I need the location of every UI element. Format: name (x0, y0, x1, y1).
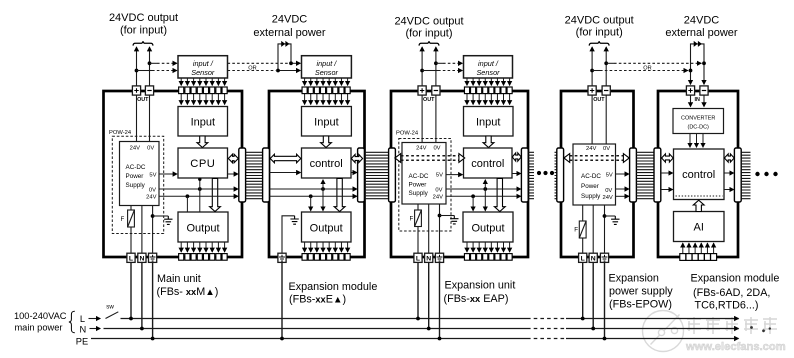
svg-text:24V: 24V (586, 146, 596, 152)
svg-text:control: control (682, 169, 715, 181)
rail PE (91, 338, 527, 340)
module1 output wire 3 (193, 242, 195, 252)
module3 input wire 4 upper (484, 78, 486, 85)
label OR (246, 64, 259, 70)
module 4 expansion power supply case (561, 91, 634, 257)
svg-text:Supply: Supply (409, 190, 429, 197)
hollow arrow control to Output module 3 (494, 179, 505, 212)
svg-text:(for input): (for input) (405, 28, 452, 40)
module 2 terminal PE (278, 253, 286, 262)
wire N module 3 (428, 204, 430, 253)
module 3 PE drop wire (439, 262, 441, 338)
module1 output wire 5 (205, 242, 207, 252)
svg-text:(FBs-6AD, 2DA,: (FBs-6AD, 2DA, (693, 287, 770, 299)
svg-text:Output: Output (310, 223, 343, 235)
box control module 2 (302, 148, 352, 178)
module 3 L drop wire (417, 262, 419, 318)
wire 0V drop to Output module 3 (484, 189, 486, 211)
rail N (104, 328, 528, 330)
svg-text:(FBs- xxM▲): (FBs- xxM▲) (157, 286, 219, 298)
svg-text:Expansion: Expansion (609, 273, 659, 285)
svg-text:AC-DC: AC-DC (409, 173, 429, 180)
expansion connector module 3 left (389, 148, 396, 202)
wire 5V control to connector module 3 (512, 173, 521, 175)
wire PE module 1 inside (152, 234, 154, 253)
module2 input wire 5 lower (328, 94, 330, 105)
module2 input wire 3 upper (316, 78, 318, 85)
box AI module 5 (674, 212, 725, 242)
dashed arrow into input/Sensor 2 lower (278, 70, 300, 72)
svg-text:OUT: OUT (137, 97, 149, 103)
dashed wire OR lower to module 2 (228, 70, 276, 72)
svg-text:Output: Output (186, 223, 219, 235)
module 3 terminal L (414, 253, 422, 262)
hollow arrow Input to CPU (197, 136, 208, 148)
wire + into converter (690, 95, 692, 106)
svg-text:Input: Input (191, 117, 215, 129)
dashed wire OR upper to module 2 (228, 62, 289, 64)
expansion connector module 5 right (734, 148, 741, 202)
wire 5V supply to control module 3 (446, 174, 463, 176)
svg-text:Expansion module: Expansion module (289, 281, 378, 293)
brace over 24VDC output arrows (419, 41, 439, 45)
module2 output wire 6 (334, 242, 336, 252)
dashed wire 0V to input/Sensor 1 lower (137, 70, 153, 72)
module1 output terminal blocks (179, 254, 228, 261)
svg-text:0V: 0V (433, 146, 440, 152)
svg-text:www.elecfans.com: www.elecfans.com (685, 341, 786, 353)
box CPU (178, 148, 228, 178)
wire 24V bus module 3 (446, 195, 521, 197)
analog input wire 4 (700, 243, 702, 253)
wire bus into control module 5 lower (661, 189, 673, 191)
watermark: elecfans logo circle (643, 311, 684, 352)
module 5 terminal - IN (700, 86, 708, 95)
svg-text:Supply: Supply (126, 182, 146, 189)
module 3 terminal - OUT (432, 86, 440, 95)
wire 5V supply to CPU (159, 173, 177, 175)
module 1 N drop wire (141, 262, 143, 328)
dashed wire OR2 upper to module 5 (606, 62, 614, 64)
wire 0V- from OUT terminal into supply (149, 95, 151, 141)
module3 input wire 3 lower (478, 94, 480, 105)
svg-text:Main unit: Main unit (157, 273, 201, 285)
junction PE earth module 4 (603, 214, 607, 218)
analog input wire 6 (713, 243, 715, 253)
fuse F module 3 (417, 204, 419, 210)
svg-text:Sensor: Sensor (315, 68, 339, 77)
svg-text:control: control (310, 158, 343, 170)
expansion connector module 2 right (358, 148, 365, 202)
wire 24V+ from OUT terminal into supply (136, 95, 138, 141)
wire N module 1 (141, 206, 143, 253)
module 4 terminal N (589, 253, 597, 262)
module 2 expansion module case (269, 91, 365, 257)
module1 input wire 4 lower (199, 94, 201, 105)
box input/Sensor 3 (464, 56, 513, 78)
module2 input wire 7 upper (340, 78, 342, 85)
box CONVERTER DC-DC (673, 109, 724, 134)
dashed POW-24 enclosure module 3 (399, 139, 451, 232)
svg-text:24VDC: 24VDC (272, 14, 308, 26)
hollow arrow connector to control module 5 left (662, 154, 674, 162)
continuation dots right of module 5 (755, 172, 759, 176)
module 4 terminal PE (600, 253, 608, 262)
junction external power lower (276, 69, 280, 73)
svg-text:Sensor: Sensor (191, 68, 215, 77)
wire 24VDC- up arrow (605, 47, 607, 86)
junction 24V module 1 (186, 194, 190, 198)
svg-text:(for input): (for input) (576, 27, 623, 39)
module2 input wire 5 upper (328, 78, 330, 85)
svg-text:OUT: OUT (423, 97, 435, 103)
brace over 24VDC output arrows (133, 41, 153, 45)
svg-text:OUT: OUT (593, 97, 605, 103)
dashed expansion bus module 3 (401, 155, 459, 157)
hollow arrow AI to control (693, 200, 704, 211)
rail L (121, 318, 528, 320)
module3 input wire 1 lower (466, 94, 468, 105)
svg-text:control: control (471, 158, 504, 170)
dashed wire to input/Sensor 3 lower (422, 70, 438, 72)
expansion connector module 4 left (557, 148, 564, 202)
wire 24V bus module 1 (159, 195, 238, 197)
svg-text:24V: 24V (130, 146, 140, 152)
module3 input wire 1 upper (466, 78, 468, 85)
junction on module4 24VDC- line (604, 61, 608, 65)
module3 output terminal blocks (464, 254, 512, 261)
svg-text:24V: 24V (146, 195, 156, 201)
box Output module 3 (463, 212, 513, 242)
module2 input wire 4 lower (322, 94, 324, 105)
svg-text:TC6,RTD6...): TC6,RTD6...) (695, 300, 759, 312)
module1 output wire 4 (199, 242, 201, 252)
wire 24VDC+ up arrow (421, 47, 423, 86)
junction on 24VDC- line (148, 61, 152, 65)
svg-text:CPU: CPU (190, 158, 215, 170)
analog input wire 2 (688, 243, 690, 253)
svg-text:Expansion module: Expansion module (691, 273, 780, 285)
module 1 terminal N (138, 253, 146, 262)
wire external power bracket 2 (691, 44, 705, 71)
svg-text:OR: OR (248, 65, 256, 71)
wire 0V branch up to control module 3 (484, 180, 486, 189)
wire - into converter (703, 95, 705, 106)
svg-text:Sensor: Sensor (476, 68, 500, 77)
module1 output wire 6 (211, 242, 213, 252)
expansion connector module 5 left (654, 148, 661, 202)
wire protective earth module 2 (282, 216, 295, 253)
module3 input wire 6 lower (496, 94, 498, 105)
svg-text:0V: 0V (147, 146, 154, 152)
box Input module 3 (464, 107, 514, 137)
module3 input wire 7 lower (503, 94, 505, 105)
svg-text:N: N (139, 255, 144, 262)
module 5 terminal + IN (686, 86, 694, 95)
svg-text:L: L (416, 255, 420, 262)
wire PE module 4 inside (604, 205, 606, 253)
svg-text:input /: input / (193, 59, 214, 68)
junction 0V module 3 (483, 187, 487, 191)
svg-text:24V: 24V (416, 146, 426, 152)
module 1 terminal PE (149, 253, 157, 262)
module1 output wire 7 (217, 242, 219, 252)
wire 0V module 4 to connector (616, 188, 629, 190)
svg-text:F: F (121, 216, 125, 223)
module2 output wire 8 (347, 242, 349, 252)
svg-text:AC-DC: AC-DC (126, 164, 146, 171)
dashed wire 24V to input/Sensor 1 upper (150, 62, 158, 64)
wire 0V- OUT terminal into supply module 4 (605, 95, 607, 144)
svg-text:F: F (574, 227, 578, 234)
arrow into + IN terminal (690, 71, 692, 85)
module1 output wire 1 (180, 242, 182, 252)
module3 output wire 4 (484, 242, 486, 252)
wire N feed arrow (90, 328, 101, 330)
module2 output wire 4 (322, 242, 324, 252)
hollow arrow Input to control module 2 (321, 136, 332, 148)
junction PE earth module 1 (151, 214, 155, 218)
wire control to connector module 5 lower (724, 189, 734, 191)
svg-text:Power: Power (581, 183, 599, 190)
wire 0V bus module 3 (446, 188, 521, 190)
wire PE module 3 inside (439, 204, 441, 253)
module2 input terminal blocks (302, 87, 350, 94)
module2 output wire 5 (328, 242, 330, 252)
svg-text:PE: PE (76, 336, 88, 346)
module3 input wire 5 lower (490, 94, 492, 105)
wire 24V drop to Output module 2 (310, 196, 312, 210)
svg-text:Power: Power (126, 173, 144, 180)
module1 output wire 2 (186, 242, 188, 252)
hollow arrow control to connector module 2 (351, 154, 362, 162)
svg-text:AI: AI (693, 222, 703, 234)
svg-text:5V: 5V (436, 173, 443, 179)
dashed arrow into input/Sensor 2 upper (291, 62, 300, 64)
module1 input wire 7 lower (217, 94, 219, 105)
svg-text:0V: 0V (605, 188, 612, 194)
hollow arrow CPU to expansion connector (228, 154, 238, 163)
svg-text:24V: 24V (602, 195, 612, 201)
module1 input wire 8 lower (224, 94, 226, 105)
module 3 terminal + OUT (418, 86, 426, 95)
hollow arrow Input to control module 3 (483, 136, 494, 148)
module2 input wire 1 upper (304, 78, 306, 85)
module3 output wire 3 (478, 242, 480, 252)
module2 input wire 4 upper (322, 78, 324, 85)
module 4 L drop wire (582, 262, 584, 318)
ribbon cable module5 right stub (741, 152, 750, 198)
svg-text:24VDC: 24VDC (684, 15, 720, 27)
fuse F module 1 (130, 206, 132, 211)
svg-text:external power: external power (253, 27, 325, 39)
wire 24VDC- up arrow (149, 47, 151, 86)
ribbon cable module3 right stub (528, 152, 534, 198)
wire 5V control to connector module 2 (351, 172, 357, 174)
module1 input terminal blocks (179, 87, 228, 94)
wire 24V+ OUT terminal into supply module 3 (421, 95, 423, 142)
module1 input wire 5 upper (205, 78, 207, 85)
svg-text:24VDC output: 24VDC output (565, 15, 634, 27)
module 3 N drop wire (428, 262, 430, 328)
continuation dots between module 3 and 4 (537, 171, 541, 175)
box control module 5 (674, 149, 725, 200)
svg-text:0V: 0V (435, 187, 442, 193)
module 4 terminal L (579, 253, 587, 262)
module3 output wire 6 (496, 242, 498, 252)
wire 24VDC- up arrow (435, 47, 437, 86)
module 3 terminal PE (435, 253, 443, 262)
wire 24VDC+ up arrow (591, 47, 593, 86)
brace main power (69, 311, 75, 332)
module 4 PE drop wire (604, 262, 606, 338)
module1 input wire 7 upper (217, 78, 219, 85)
box Output module 2 (302, 212, 352, 242)
hollow arrow CPU to Output (210, 179, 221, 212)
module3 input wire 2 lower (472, 94, 474, 105)
module1 input wire 3 upper (193, 78, 195, 85)
svg-text:input /: input / (478, 59, 499, 68)
module3 input wire 4 lower (484, 94, 486, 105)
svg-text:L: L (129, 255, 133, 262)
module1 input wire 3 lower (193, 94, 195, 105)
junction 24V module 3 (471, 194, 475, 198)
module2 input wire 8 lower (347, 94, 349, 105)
wire 5V module 4 to connector (616, 173, 629, 175)
svg-text:L: L (80, 314, 85, 324)
module3 input wire 7 upper (503, 78, 505, 85)
box input/Sensor 2 (302, 56, 352, 78)
module2 output wire 7 (340, 242, 342, 252)
module 1 main unit case (104, 91, 243, 257)
ribbon cable module1-module2 (246, 152, 263, 198)
hollow arrow control to connector module 3 (512, 153, 521, 161)
ribbon cable module2-module3 (365, 152, 389, 198)
svg-text:(FBs-xxE▲): (FBs-xxE▲) (289, 294, 346, 306)
watermark: dark specks (750, 326, 753, 329)
box Input module 1 (178, 107, 228, 137)
wire 24V drop to Output module 1 (186, 196, 188, 212)
svg-text:(for input): (for input) (120, 25, 167, 37)
junction PE earth module 3 (438, 214, 442, 218)
expansion connector module 3 right (521, 148, 528, 202)
junction external power 2 lower (689, 69, 693, 73)
expansion connector module 1 right (239, 148, 246, 202)
module2 input wire 6 lower (334, 94, 336, 105)
svg-text:AC-DC: AC-DC (581, 173, 601, 180)
module3 output wire 1 (466, 242, 468, 252)
dashed POW-24 enclosure module 1 (112, 136, 163, 233)
box Input module 2 (302, 107, 352, 137)
module 4 N drop wire (592, 262, 594, 328)
expansion connector module 2 left (263, 148, 270, 202)
junction on module3 24VDC+ line (420, 69, 424, 73)
svg-text:OR: OR (643, 65, 651, 71)
svg-text:5V: 5V (149, 173, 156, 179)
svg-text:input /: input / (316, 59, 337, 68)
svg-text:(DC-DC): (DC-DC) (688, 125, 710, 131)
svg-text:N: N (591, 255, 596, 262)
svg-text:(FBs-EPOW): (FBs-EPOW) (609, 299, 672, 311)
earth symbol module 1 (153, 215, 169, 217)
external power 2 polarity marks (694, 41, 702, 47)
ribbon cable module4 left stub (555, 152, 557, 198)
svg-text:external power: external power (665, 27, 737, 39)
arrow into - IN terminal (703, 63, 705, 84)
module3 input wire 6 upper (496, 78, 498, 85)
junction external power upper (289, 61, 293, 65)
wire 0V- OUT terminal into supply module 3 (435, 95, 437, 142)
module3 output wire 2 (472, 242, 474, 252)
module2 input wire 2 upper (310, 78, 312, 85)
module1 input wire 2 lower (186, 94, 188, 105)
svg-text:Supply: Supply (581, 193, 601, 200)
wire bus into control module 5 upper (661, 172, 673, 174)
svg-text:24VDC output: 24VDC output (109, 12, 178, 24)
svg-text:L: L (581, 255, 585, 262)
svg-text:POW-24: POW-24 (109, 130, 132, 136)
module 4 terminal - OUT (602, 86, 610, 95)
wire control to connector module 5 upper (724, 172, 734, 174)
module 3 expansion unit case (391, 91, 528, 257)
earth symbol module 3 (440, 215, 455, 217)
wire 0V drop to Output module 1 (199, 189, 201, 212)
junction on 24VDC+ line (135, 69, 139, 73)
junction external power 2 upper (702, 61, 706, 65)
earth symbol module 4 (605, 215, 616, 217)
module 1 L drop wire (130, 262, 132, 318)
module2 output wire 1 (304, 242, 306, 252)
module1 input wire 2 upper (186, 78, 188, 85)
module1 input wire 5 lower (205, 94, 207, 105)
module1 input wire 1 lower (180, 94, 182, 105)
svg-text:Input: Input (314, 117, 338, 129)
junction on module3 24VDC- line (434, 61, 438, 65)
svg-text:Expansion unit: Expansion unit (445, 280, 516, 292)
external power polarity marks (281, 41, 289, 47)
dashed wire OR2 lower to module 5 (592, 70, 600, 72)
junction on module4 24VDC+ line (590, 69, 594, 73)
module 1 terminal + OUT (132, 86, 140, 95)
module3 output wire 5 (490, 242, 492, 252)
analog input wire 3 (694, 243, 696, 253)
dotted line inside control module 5 (676, 195, 723, 197)
svg-text:5V: 5V (606, 173, 613, 179)
module2 output wire 3 (316, 242, 318, 252)
box AC-DC power supply module 3 (402, 143, 446, 205)
svg-text:sw: sw (106, 304, 114, 311)
module3 input wire 8 upper (509, 78, 511, 85)
wire 24V bus module 2 (270, 195, 357, 197)
module 4 terminal + OUT (588, 86, 596, 95)
module 5 bottom terminal blocks (680, 254, 717, 261)
module2 input wire 7 lower (340, 94, 342, 105)
wire 24V drop to Output module 3 (472, 196, 474, 210)
svg-text:24V: 24V (433, 195, 443, 201)
module3 input wire 8 lower (509, 94, 511, 105)
hollow arrow connector to control module 2 (270, 154, 301, 163)
expansion connector module 4 right (630, 148, 637, 202)
svg-text:0V: 0V (149, 187, 156, 193)
wire 0V bus module 2 (270, 188, 357, 190)
box AC-DC power supply module 4 (573, 144, 616, 205)
box control module 3 (464, 148, 513, 178)
module2 input wire 8 upper (347, 78, 349, 85)
junction 24V module 2 (309, 194, 313, 198)
ribbon cable module4-module5 (636, 152, 653, 198)
wire external power bracket (278, 44, 291, 70)
module1 input wire 8 upper (224, 78, 226, 85)
